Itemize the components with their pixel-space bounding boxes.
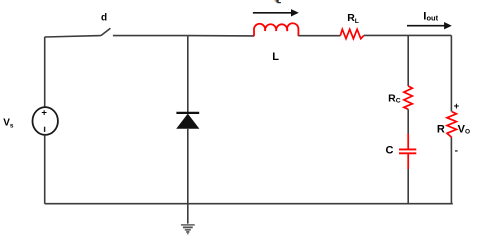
capacitor C lead (red, top) xyxy=(407,134,409,149)
right branch wire (top) xyxy=(450,35,452,111)
RC/C branch wire (bottom) xyxy=(407,169,409,204)
inductor L (red coil) xyxy=(254,23,298,36)
wire diode node to inductor xyxy=(188,35,254,37)
label iL fragment (clipped at top) xyxy=(275,0,277,2)
resistor RL (red zigzag) xyxy=(340,29,364,38)
svg-text:VO: VO xyxy=(458,124,470,136)
wire left vertical (source branch bottom) xyxy=(44,135,46,204)
svg-text:Iout: Iout xyxy=(423,11,438,23)
arrow Iout xyxy=(407,25,446,27)
ground symbol xyxy=(181,224,195,234)
svg-text:Vs: Vs xyxy=(3,118,14,130)
svg-text:L: L xyxy=(272,51,279,63)
current arrow iL xyxy=(253,12,293,14)
capacitor C plates (red) xyxy=(399,148,416,150)
diode D cathode bar xyxy=(176,112,199,114)
wire top-left horizontal xyxy=(45,36,101,37)
svg-text:RL: RL xyxy=(347,12,359,25)
right branch wire (bottom) xyxy=(450,138,452,204)
wire left vertical (source branch top) xyxy=(44,37,46,107)
resistor R (red vertical zigzag) xyxy=(447,112,456,138)
diode branch wire (top) xyxy=(187,36,189,113)
source - tick xyxy=(44,127,46,132)
diode branch wire (bottom) to ground xyxy=(187,129,189,224)
voltage source Vs (circle) xyxy=(33,107,58,135)
svg-text:d: d xyxy=(101,13,107,24)
wire inductor to RL xyxy=(298,35,340,37)
wire switch to diode node xyxy=(113,35,188,37)
diode D (triangle) xyxy=(176,114,199,129)
label - (output polarity) xyxy=(455,150,458,151)
svg-text:RC: RC xyxy=(388,92,401,104)
resistor RC (red vertical zigzag) xyxy=(404,86,412,109)
capacitor C lead (red, bottom) xyxy=(407,154,409,169)
switch d (blade) xyxy=(101,28,111,35)
svg-text:C: C xyxy=(386,145,394,157)
wire RL to right corner xyxy=(364,34,452,36)
wire RC to C xyxy=(407,109,409,134)
bottom wire xyxy=(45,203,453,205)
svg-text:+: + xyxy=(41,108,47,119)
svg-text:+: + xyxy=(454,101,460,112)
RC/C branch wire (top) xyxy=(407,35,409,86)
svg-text:R: R xyxy=(437,124,445,136)
